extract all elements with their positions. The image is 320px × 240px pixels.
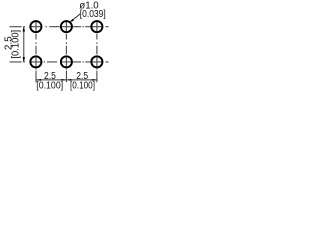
svg-text:[0.100]: [0.100] xyxy=(36,79,63,91)
vertical dimension line (left, between row centerlines) xyxy=(23,27,25,61)
pad hole B3 (bottom-right circle) xyxy=(91,56,102,67)
pad hole B1 (bottom-left circle) xyxy=(30,56,41,67)
extension line below column 1 xyxy=(35,69,37,83)
horizontal dimension line 2 (bottom, col2-col3) xyxy=(67,79,97,81)
pad hole B2 (bottom-middle circle) xyxy=(61,56,72,67)
arrowhead right (dimension 1) xyxy=(61,79,66,81)
arrowhead left (dimension 1) xyxy=(36,79,41,81)
svg-text:[0.100]: [0.100] xyxy=(10,30,21,59)
arrowhead right (dimension 2) xyxy=(92,79,97,81)
leader line from ø1.0 label to top-middle pad xyxy=(71,14,81,22)
pad hole A3 (top-right circle) xyxy=(91,21,102,32)
svg-text:[0.100]: [0.100] xyxy=(70,80,95,91)
extension line below column 2 xyxy=(65,69,67,83)
centerline row 1 (dash-dot horizontal through top pad row) xyxy=(10,26,109,28)
extension line below column 3 xyxy=(96,69,98,83)
centerline row 2 (dash-dot horizontal through bottom pad row) xyxy=(10,61,109,63)
horizontal dimension line 1 (bottom, col1-col2) xyxy=(36,79,66,81)
arrowhead up (left dimension, top) xyxy=(23,27,26,32)
svg-text:[0.039]: [0.039] xyxy=(80,9,106,20)
pad hole A2 (top-middle circle) xyxy=(61,21,72,32)
centerline column 1 (vertical dash-dot through left pads) xyxy=(35,20,37,68)
arrowhead down (left dimension, bottom) xyxy=(23,57,26,62)
centerline column 3 (vertical dash-dot through right pads) xyxy=(96,20,98,68)
arrowhead left (dimension 2) xyxy=(67,79,72,81)
centerline column 2 (vertical dash-dot through middle pads) xyxy=(65,20,67,68)
pad hole A1 (top-left circle) xyxy=(30,21,41,32)
background xyxy=(0,0,110,96)
leader arrowhead xyxy=(70,19,74,23)
